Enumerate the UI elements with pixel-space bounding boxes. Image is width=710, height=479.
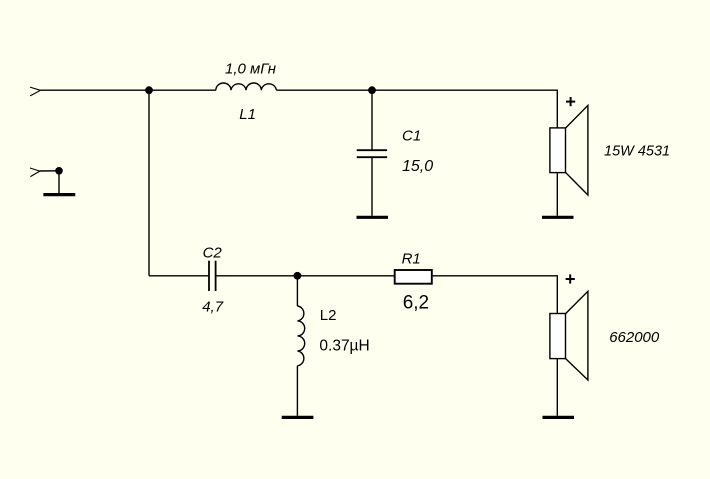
- svg-text:4,7: 4,7: [202, 298, 224, 315]
- svg-text:662000: 662000: [609, 329, 660, 346]
- svg-text:6,2: 6,2: [403, 292, 429, 313]
- svg-text:15W 4531: 15W 4531: [604, 144, 670, 160]
- svg-text:0.37µH: 0.37µH: [319, 337, 369, 354]
- svg-text:15,0: 15,0: [402, 158, 433, 175]
- svg-text:L2: L2: [320, 307, 337, 324]
- svg-text:R1: R1: [402, 251, 421, 268]
- svg-text:C1: C1: [402, 128, 421, 145]
- svg-text:1,0 мГн: 1,0 мГн: [225, 61, 276, 78]
- svg-text:C2: C2: [203, 245, 223, 262]
- svg-text:L1: L1: [239, 106, 256, 123]
